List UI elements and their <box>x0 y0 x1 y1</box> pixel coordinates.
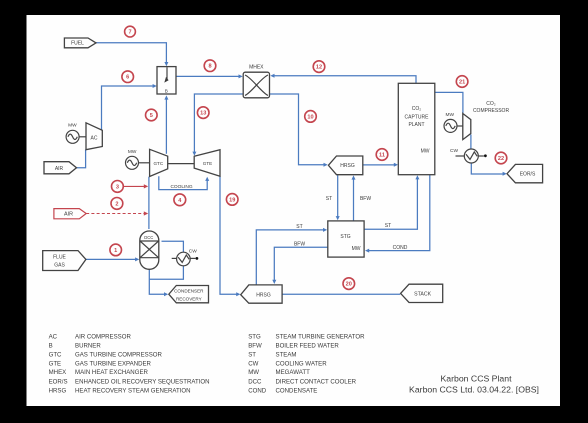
svg-text:BURNER: BURNER <box>75 343 101 350</box>
svg-text:2: 2 <box>115 201 118 207</box>
svg-text:PLANT: PLANT <box>408 122 424 128</box>
svg-text:ST: ST <box>248 352 256 359</box>
svg-text:Karbon CCS Ltd. 03.04.22. [OBS: Karbon CCS Ltd. 03.04.22. [OBS] <box>409 385 539 395</box>
svg-text:13: 13 <box>200 111 206 117</box>
svg-text:COOLING: COOLING <box>170 184 192 190</box>
svg-text:DCC: DCC <box>248 378 262 385</box>
svg-text:AC: AC <box>49 333 58 340</box>
svg-text:STACK: STACK <box>414 291 431 297</box>
svg-text:AIR: AIR <box>55 166 64 172</box>
svg-text:BOILER FEED WATER: BOILER FEED WATER <box>276 343 340 350</box>
svg-text:FUEL: FUEL <box>71 41 84 47</box>
svg-text:22: 22 <box>498 156 504 162</box>
svg-text:MHEX: MHEX <box>49 369 67 376</box>
svg-text:STG: STG <box>340 234 350 240</box>
svg-text:20: 20 <box>346 282 352 288</box>
svg-text:EOR/S: EOR/S <box>49 378 68 385</box>
svg-text:HRSG: HRSG <box>49 387 67 394</box>
svg-text:11: 11 <box>379 153 385 159</box>
svg-text:MW: MW <box>421 149 430 155</box>
svg-text:ENHANCED OIL RECOVERY SEQUESTR: ENHANCED OIL RECOVERY SEQUESTRATION <box>75 378 210 385</box>
svg-text:MW: MW <box>68 123 77 129</box>
svg-text:AC: AC <box>91 135 98 141</box>
svg-text:GTE: GTE <box>49 360 62 367</box>
svg-text:BFW: BFW <box>360 196 371 202</box>
svg-text:10: 10 <box>307 114 313 120</box>
svg-text:EOR/S: EOR/S <box>520 172 536 178</box>
svg-text:DCC: DCC <box>144 235 153 240</box>
svg-text:7: 7 <box>128 30 131 36</box>
svg-text:19: 19 <box>229 197 235 203</box>
svg-text:COND: COND <box>393 245 408 251</box>
svg-text:MW: MW <box>248 369 259 376</box>
svg-text:CAPTURE: CAPTURE <box>405 114 430 120</box>
svg-text:GAS: GAS <box>54 262 65 268</box>
svg-text:5: 5 <box>150 113 153 119</box>
svg-text:STEAM: STEAM <box>276 352 297 359</box>
svg-text:CO₂: CO₂ <box>486 101 496 107</box>
svg-text:HEAT RECOVERY STEAM GENERATION: HEAT RECOVERY STEAM GENERATION <box>75 387 191 394</box>
svg-text:BFW: BFW <box>294 241 305 247</box>
svg-text:CW: CW <box>248 360 258 367</box>
svg-text:GTC: GTC <box>153 161 163 166</box>
svg-text:GTE: GTE <box>203 161 212 166</box>
svg-text:GAS TURBINE COMPRESSOR: GAS TURBINE COMPRESSOR <box>75 352 163 359</box>
svg-text:CONDENSER: CONDENSER <box>174 289 204 294</box>
svg-text:B: B <box>49 343 53 350</box>
svg-text:COOLING WATER: COOLING WATER <box>276 360 328 367</box>
svg-text:MW: MW <box>446 112 455 118</box>
svg-text:MHEX: MHEX <box>249 65 264 71</box>
svg-text:6: 6 <box>126 75 129 81</box>
svg-text:CONDENSATE: CONDENSATE <box>276 387 318 394</box>
svg-text:21: 21 <box>459 80 465 86</box>
svg-text:GTC: GTC <box>49 352 62 359</box>
svg-text:ST: ST <box>326 196 332 202</box>
svg-text:3: 3 <box>116 184 119 190</box>
svg-text:HRSG: HRSG <box>256 293 271 299</box>
svg-text:AIR COMPRESSOR: AIR COMPRESSOR <box>75 333 131 340</box>
svg-text:8: 8 <box>208 64 211 70</box>
svg-text:Karbon CCS Plant: Karbon CCS Plant <box>441 374 513 384</box>
svg-text:COMPRESSOR: COMPRESSOR <box>473 108 510 114</box>
svg-text:GAS TURBINE EXPANDER: GAS TURBINE EXPANDER <box>75 360 152 367</box>
svg-text:RECOVERY: RECOVERY <box>176 296 202 301</box>
svg-text:MAIN HEAT EXCHANGER: MAIN HEAT EXCHANGER <box>75 369 149 376</box>
svg-text:MW: MW <box>352 246 361 252</box>
svg-text:AIR: AIR <box>64 212 73 218</box>
svg-text:BFW: BFW <box>248 343 262 350</box>
svg-text:COND: COND <box>248 387 267 394</box>
svg-text:12: 12 <box>316 65 322 71</box>
svg-text:FLUE: FLUE <box>53 254 66 260</box>
svg-text:CO₂: CO₂ <box>412 106 422 112</box>
svg-text:CW: CW <box>450 148 458 154</box>
svg-text:CW: CW <box>189 249 197 255</box>
svg-text:ST: ST <box>385 223 391 229</box>
svg-text:MW: MW <box>128 149 137 155</box>
svg-text:B: B <box>165 89 168 94</box>
svg-text:HRSG: HRSG <box>340 163 355 169</box>
svg-text:ST: ST <box>296 224 302 230</box>
svg-text:MEGAWATT: MEGAWATT <box>276 369 311 376</box>
svg-text:STG: STG <box>248 333 261 340</box>
svg-text:1: 1 <box>114 248 117 254</box>
svg-text:DIRECT CONTACT COOLER: DIRECT CONTACT COOLER <box>276 378 357 385</box>
svg-text:STEAM TURBINE GENERATOR: STEAM TURBINE GENERATOR <box>276 333 366 340</box>
